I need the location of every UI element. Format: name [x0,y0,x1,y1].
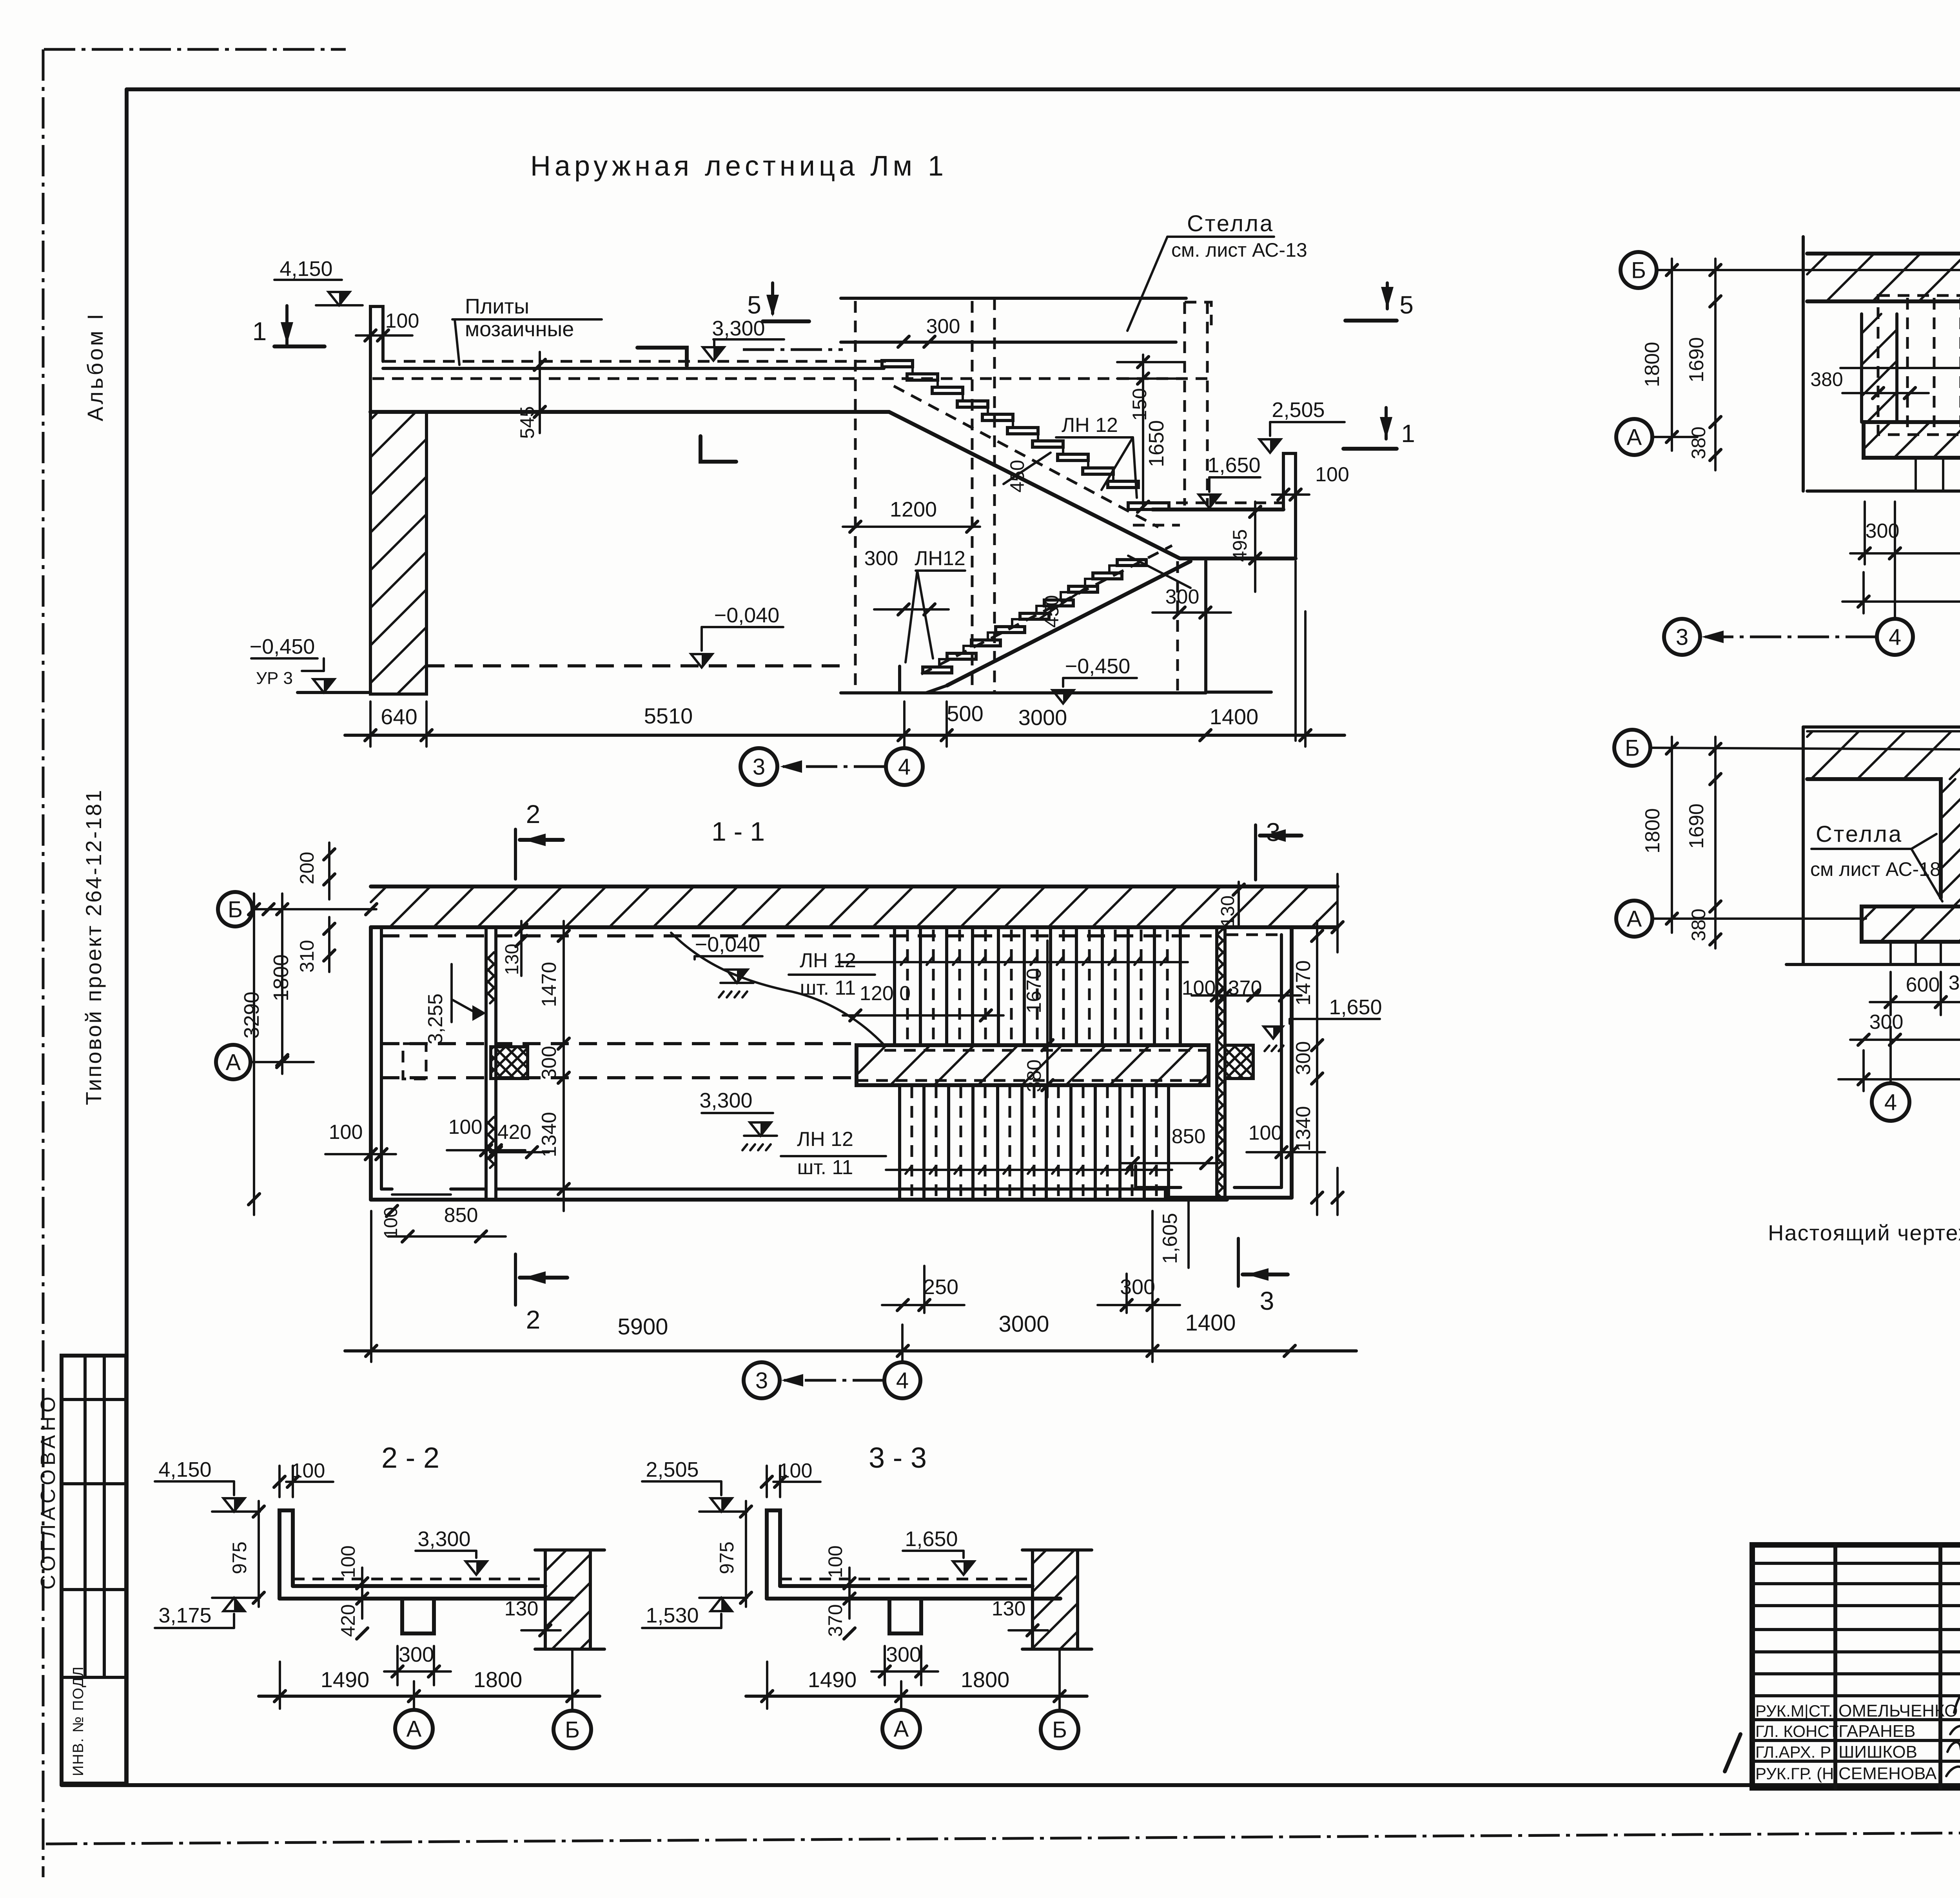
svg-text:2: 2 [526,799,541,828]
plan break curve [671,933,884,1045]
svg-text:ГЛ. КОНСТ: ГЛ. КОНСТ [1755,1722,1839,1740]
svg-text:1800: 1800 [474,1667,523,1692]
svg-text:ЛН 12: ЛН 12 [797,1128,853,1151]
5-5b axis B circle [1614,730,1650,766]
stella dashed corner top right [1185,302,1211,325]
svg-text:1670: 1670 [1023,968,1045,1013]
svg-text:130: 130 [992,1597,1026,1620]
upper treads leader line [839,961,1188,963]
svg-text:420: 420 [337,1604,359,1637]
plan inner wall left [380,927,383,1189]
3 - 3 slab [780,1584,1033,1588]
svg-text:−0,040: −0,040 [695,933,760,956]
svg-text:300: 300 [538,1046,561,1080]
plan lower flight treads [898,1086,901,1198]
3 - 3 rib [889,1599,921,1633]
svg-text:1650: 1650 [1145,420,1168,467]
svg-text:1400: 1400 [1185,1310,1236,1336]
page cut edge left dashed vertical [42,49,45,1877]
axis B line plan [252,908,376,910]
5-5a landing ribs [1915,458,1917,491]
svg-text:3,175: 3,175 [158,1604,211,1627]
svg-text:Альбом I: Альбом I [83,312,107,421]
svg-text:Б: Б [1052,1717,1067,1742]
plan dashed line top [381,934,1212,937]
3 - 3 axis circle B [1041,1711,1078,1748]
level mark -0,450 center [1053,690,1074,703]
plan level 1,605 leader [1187,1199,1190,1203]
svg-text:5900: 5900 [617,1314,668,1340]
svg-text:Б: Б [228,897,243,922]
svg-text:1800: 1800 [1641,342,1664,387]
svg-text:1800: 1800 [1641,808,1664,854]
svg-text:1490: 1490 [808,1667,857,1692]
plan bottom dim line [345,1349,1356,1352]
3 - 3 level mark slab [953,1561,974,1575]
axis B circle plan [218,892,252,926]
svg-text:см. лист АС-13: см. лист АС-13 [1171,239,1307,261]
svg-text:−0,450: −0,450 [1065,654,1131,678]
upper flight stringer dashed edge [894,386,1158,527]
svg-text:1340: 1340 [1292,1106,1315,1151]
stella top line [841,297,1186,300]
svg-text:1,650: 1,650 [1207,453,1260,477]
svg-text:3,300: 3,300 [712,317,765,340]
svg-text:шт. 11: шт. 11 [800,977,856,999]
svg-text:ШИШКОВ: ШИШКОВ [1838,1742,1917,1762]
svg-text:РУК.М|СТ.: РУК.М|СТ. [1755,1702,1833,1720]
svg-text:300: 300 [1292,1041,1315,1075]
svg-text:380: 380 [1810,368,1843,390]
5-5b axis A circle [1616,901,1652,937]
svg-text:см лист АС-18: см лист АС-18 [1810,858,1941,880]
svg-text:300: 300 [1869,1011,1904,1033]
svg-text:250: 250 [923,1275,958,1299]
5-5a axis B line [1657,269,1960,271]
title block left row lines [1752,1562,1960,1565]
svg-text:380: 380 [1949,972,1960,994]
5-5b left edge line [1802,727,1805,964]
2 - 2 bottom dim line [259,1695,600,1698]
svg-text:1800: 1800 [269,954,293,1001]
svg-text:100: 100 [448,1116,483,1138]
plan dim 200 top [328,843,330,899]
plan right column crosshatch [1225,1045,1253,1079]
plan inner cross wall [485,927,488,1200]
5-5a bottom line [1807,489,1960,493]
level mark 3,300 [703,347,724,361]
section bottom dimension line [345,734,1345,737]
svg-text:3 - 3: 3 - 3 [869,1441,927,1474]
svg-text:100: 100 [1315,463,1349,486]
axis circle 3 plan [744,1362,780,1398]
section line jog mark 1 [637,348,687,366]
svg-text:РУК.ГР. (Н: РУК.ГР. (Н [1755,1764,1834,1783]
svg-text:380: 380 [1688,426,1710,459]
margin stamp table [62,1356,126,1784]
svg-text:4,150: 4,150 [158,1458,211,1481]
ground line center [841,691,1206,694]
plan left vertical dim 3290 [253,894,255,1215]
level mark -0,450 left [313,679,334,692]
level mark 2,505 [1259,439,1281,453]
svg-text:Настоящий чертеж смотреть с: Настоящий чертеж смотреть совместно с ли… [1768,1220,1960,1245]
plan column crosshatch [491,1047,528,1079]
2 - 2 finish dashed [293,1578,541,1581]
3 - 3 right wall hatched [1031,1550,1034,1649]
lower flight first step base [898,666,901,693]
svg-text:3: 3 [1260,1286,1274,1315]
svg-text:Б: Б [1625,735,1640,761]
5-5b ground line [1786,963,1960,966]
5-5b top wall hatched [1807,730,1960,732]
svg-text:500: 500 [947,701,983,726]
level mark 4,150 [328,292,350,305]
svg-text:3: 3 [1676,624,1688,650]
svg-text:1340: 1340 [538,1112,561,1157]
landing dashes under [1133,524,1180,527]
3 - 3 level mark bottom [711,1598,732,1611]
svg-text:495: 495 [1229,529,1251,562]
title block left column lines [1833,1545,1837,1788]
svg-text:А: А [407,1716,422,1742]
5-5b dim 1800 [1671,737,1673,933]
ground step right [1208,691,1271,694]
svg-text:1490: 1490 [321,1667,370,1692]
svg-text:3000: 3000 [998,1311,1049,1337]
5-5a flight tread dashed lines [1906,298,1909,433]
plan right room bottom [1169,1196,1292,1200]
dim 495 [1254,502,1256,592]
axis A tick line plan [250,1061,314,1063]
plan dim 310 [328,917,330,972]
platform slab bottom and stringer soffit [370,412,1296,558]
svg-text:300: 300 [1165,586,1200,608]
svg-text:Стелла: Стелла [1187,211,1274,236]
stella second line [841,341,1176,344]
2 - 2 level mark top [223,1498,245,1512]
svg-text:−0,040: −0,040 [714,604,780,627]
wall below landing solid [1204,561,1207,693]
landing finish dashed [1176,502,1282,504]
svg-text:3,300: 3,300 [699,1089,752,1112]
svg-text:420: 420 [497,1121,532,1144]
frame border top [127,87,1960,91]
2 - 2 parapet [279,1510,293,1599]
plan dashed beam line upper [381,1042,857,1045]
svg-text:300: 300 [926,315,960,338]
5-5b dim 1690 380 [1714,737,1717,948]
svg-text:Б: Б [565,1717,580,1742]
ground line left [298,691,370,694]
svg-text:3290: 3290 [240,992,263,1039]
level mark -0,040 [691,654,712,667]
svg-text:100: 100 [824,1545,846,1578]
svg-text:545: 545 [516,406,538,439]
3 - 3 dim 975 [745,1501,747,1607]
axis A circle plan [216,1045,250,1079]
5-5b room outline [1807,779,1941,898]
svg-text:шт. 11: шт. 11 [797,1156,853,1179]
frame border left [125,89,129,1785]
plan upper flight treads [893,929,896,1044]
svg-text:3,255: 3,255 [424,993,447,1044]
plan landing strip [857,1045,1209,1085]
lower flight stringer bottom [947,561,1191,685]
svg-text:300: 300 [864,547,898,570]
5-5a dim 1690 380 [1714,259,1717,470]
svg-text:100: 100 [329,1121,363,1144]
svg-text:640: 640 [381,704,417,729]
lower treads leader line [886,1169,1172,1171]
hidden dashed line under slab [372,377,1209,380]
svg-text:ЛН 12: ЛН 12 [1062,414,1118,437]
svg-text:2: 2 [526,1305,541,1334]
svg-text:1690: 1690 [1685,803,1708,849]
landing top surface [1152,508,1283,511]
dashed level line -0,450 [426,664,841,667]
5-5a flight dashed outline [1878,295,1960,435]
svg-text:5: 5 [747,291,761,319]
axis circle 4 section [886,748,923,785]
svg-text:100: 100 [337,1545,359,1578]
5-5a top slab hatched [1807,252,1960,256]
2 - 2 level mark slab [466,1561,487,1575]
svg-text:Наружная лестница Лм 1: Наружная лестница Лм 1 [530,150,947,182]
left slash mark [1725,1734,1740,1771]
upper flight treads [882,361,913,367]
svg-text:мозаичные: мозаичные [465,317,574,341]
plan bottom wall inner [381,1187,392,1191]
5-5a direction arrow [1840,367,1960,369]
plan crosshatch wall right [1215,927,1218,1198]
svg-text:850: 850 [444,1204,478,1227]
3 - 3 axis circle A [882,1710,920,1748]
svg-text:2 - 2: 2 - 2 [381,1441,439,1474]
svg-text:1200: 1200 [890,498,937,521]
5-5a axis circle 4 [1877,619,1913,655]
platform slab top [383,367,884,370]
axis arrow 3-4 section [783,765,885,768]
svg-text:А: А [1627,906,1642,932]
floor finish dashed line [384,360,894,363]
svg-text:4,150: 4,150 [279,257,332,281]
svg-text:130: 130 [502,944,523,975]
svg-text:3: 3 [755,1368,768,1393]
2 - 2 axis circle B [554,1711,591,1748]
svg-text:А: А [894,1716,909,1742]
svg-text:Типовой проект 264-12-181: Типовой проект 264-12-181 [81,789,106,1105]
axis circle 3 section [740,748,777,785]
5-5b axis B line [1650,748,1960,751]
stella dashed vertical single [854,301,857,693]
5-5a dim 1800 [1671,259,1673,451]
svg-text:300: 300 [886,1643,921,1666]
svg-text:СЕМЕНОВА: СЕМЕНОВА [1838,1764,1937,1783]
3 - 3 finish dashed [780,1578,1028,1581]
svg-text:1690: 1690 [1685,337,1708,383]
2 - 2 right wall hatched [544,1550,547,1649]
svg-text:1470: 1470 [1292,960,1315,1006]
plan left vertical dim 1800 [281,894,283,1074]
svg-text:4: 4 [1884,1089,1897,1115]
svg-text:1,530: 1,530 [646,1604,699,1627]
right parapet of landing [1283,453,1296,557]
5-5b bottom slab hatched [1862,906,1960,942]
plan right outer dim line [1336,874,1339,952]
parapet left [370,306,383,412]
svg-text:4: 4 [898,754,911,780]
plan dashed footing square [403,1044,426,1079]
svg-text:975: 975 [716,1541,738,1574]
svg-text:100: 100 [1249,1122,1283,1144]
right extension line [1294,561,1297,741]
5-5a axis A circle [1616,419,1652,455]
5-5b bottom slab ribs [1889,942,1892,964]
svg-text:300: 300 [1120,1275,1155,1299]
svg-text:УР 3: УР 3 [256,669,293,688]
svg-text:Стелла: Стелла [1816,821,1903,847]
stella dashed vertical left pair [971,301,974,693]
5-5a left edge line [1802,237,1805,491]
2 - 2 rib [402,1599,434,1633]
svg-text:1 - 1: 1 - 1 [711,817,765,847]
signature squiggles [1954,1688,1960,1713]
svg-text:380: 380 [1688,908,1710,941]
5-5a landing slab hatched [1864,422,1960,458]
svg-text:5: 5 [1399,291,1414,319]
2 - 2 axis circle A [395,1710,433,1748]
svg-text:ГАРАНЕВ: ГАРАНЕВ [1838,1722,1915,1741]
5-5a axis arrow [1705,636,1877,638]
stella dashed verticals right [1183,302,1186,506]
wall below hatched [370,412,426,694]
svg-text:3,300: 3,300 [417,1527,470,1551]
lower flight dashed stringer [921,546,1172,674]
svg-text:600: 600 [1906,973,1940,996]
svg-text:3000: 3000 [1018,705,1067,730]
plan right room walls [1227,925,1292,929]
plan bottom notch [1164,1189,1167,1200]
plan bottom wall outer [371,1198,1227,1202]
svg-text:5510: 5510 [644,703,693,728]
svg-text:А: А [1627,424,1642,450]
plan outer wall left [369,927,373,1200]
title block outer frame [1752,1545,1960,1788]
5-5a axis circle 3 [1664,619,1700,655]
5-5b axis circle 4 [1872,1083,1909,1121]
svg-text:ГЛ.АРХ. Р: ГЛ.АРХ. Р [1755,1743,1831,1761]
2 - 2 level mark bottom [223,1598,245,1611]
svg-text:2,505: 2,505 [1272,398,1325,422]
svg-text:А: А [226,1050,241,1075]
svg-text:ЛН12: ЛН12 [915,547,965,570]
svg-text:СОГЛАСОВАНО: СОГЛАСОВАНО [37,1393,60,1590]
page cut edge top-left dash-dot [44,48,346,51]
page cut edge bottom dash-dot [46,1829,1960,1844]
axis arrow 3-4 plan [784,1379,884,1382]
2 - 2 dim 975 [258,1501,260,1607]
lower flight stringer bottom tail [926,685,947,693]
plan dashed beam line lower [381,1076,857,1079]
3 - 3 parapet [767,1510,780,1599]
svg-text:3: 3 [753,754,765,780]
plan top wall band [371,885,1338,888]
5-5b stella pier hatch [1941,779,1955,794]
dim 150 and 1650 vertical right [1142,355,1144,509]
section line jog mark 2 [701,436,736,462]
3 - 3 level mark top [711,1498,732,1512]
svg-text:130: 130 [505,1597,539,1620]
svg-text:1,605: 1,605 [1159,1213,1181,1264]
svg-text:130: 130 [1218,896,1238,927]
svg-text:1470: 1470 [538,962,561,1007]
plan landing dashed edges [884,1049,1209,1052]
svg-text:4: 4 [1889,624,1901,650]
svg-text:200: 200 [296,852,318,884]
axis dash-dot at 3,300 [743,348,843,351]
plan upper treads slash marks [901,957,907,965]
landing top tread [1128,503,1169,509]
svg-text:150: 150 [1129,388,1151,421]
svg-text:1800: 1800 [961,1667,1010,1692]
svg-text:120 0: 120 0 [860,982,911,1005]
svg-text:4: 4 [896,1368,909,1393]
svg-text:ОМЕЛЬЧЕНКО: ОМЕЛЬЧЕНКО [1838,1701,1958,1720]
lower flight treads [1117,560,1146,566]
svg-text:975: 975 [229,1541,250,1574]
5-5a axis B circle [1621,252,1657,288]
2 - 2 slab [293,1584,545,1588]
3 - 3 bottom dim line [746,1695,1087,1698]
level mark 1,650 section [1199,495,1220,508]
5-5b top line [1803,725,1960,729]
5-5a axis A line [1652,436,1697,438]
5-5b axis A line [1652,917,1866,920]
lower flight crossing diagonal [1128,556,1191,588]
svg-text:1,650: 1,650 [1329,995,1382,1019]
5-5a left pier hatched [1860,314,1863,422]
svg-text:100: 100 [385,310,419,332]
svg-text:1: 1 [1401,419,1415,448]
svg-text:1,650: 1,650 [905,1527,958,1551]
svg-text:300: 300 [399,1643,434,1666]
axis circle 4 plan [884,1362,920,1398]
5-5a axis line 4 [1894,502,1896,619]
svg-text:370: 370 [824,1604,846,1637]
svg-text:ЛН 12: ЛН 12 [800,949,856,972]
plan bottom wall opening sill [392,1193,451,1196]
svg-text:2,505: 2,505 [646,1458,699,1481]
svg-text:850: 850 [1172,1125,1206,1148]
frame border bottom [62,1783,1960,1787]
svg-text:310: 310 [296,940,318,972]
svg-text:1400: 1400 [1210,704,1259,729]
svg-text:Б: Б [1631,257,1646,283]
svg-text:1: 1 [252,317,267,346]
svg-text:ИНВ. № ПОДЛ: ИНВ. № ПОДЛ [70,1666,87,1776]
svg-text:−0,450: −0,450 [250,635,315,658]
plan lower treads slash marks [906,1166,912,1174]
wall below landing dashed [1176,561,1179,692]
svg-text:Плиты: Плиты [465,295,529,318]
